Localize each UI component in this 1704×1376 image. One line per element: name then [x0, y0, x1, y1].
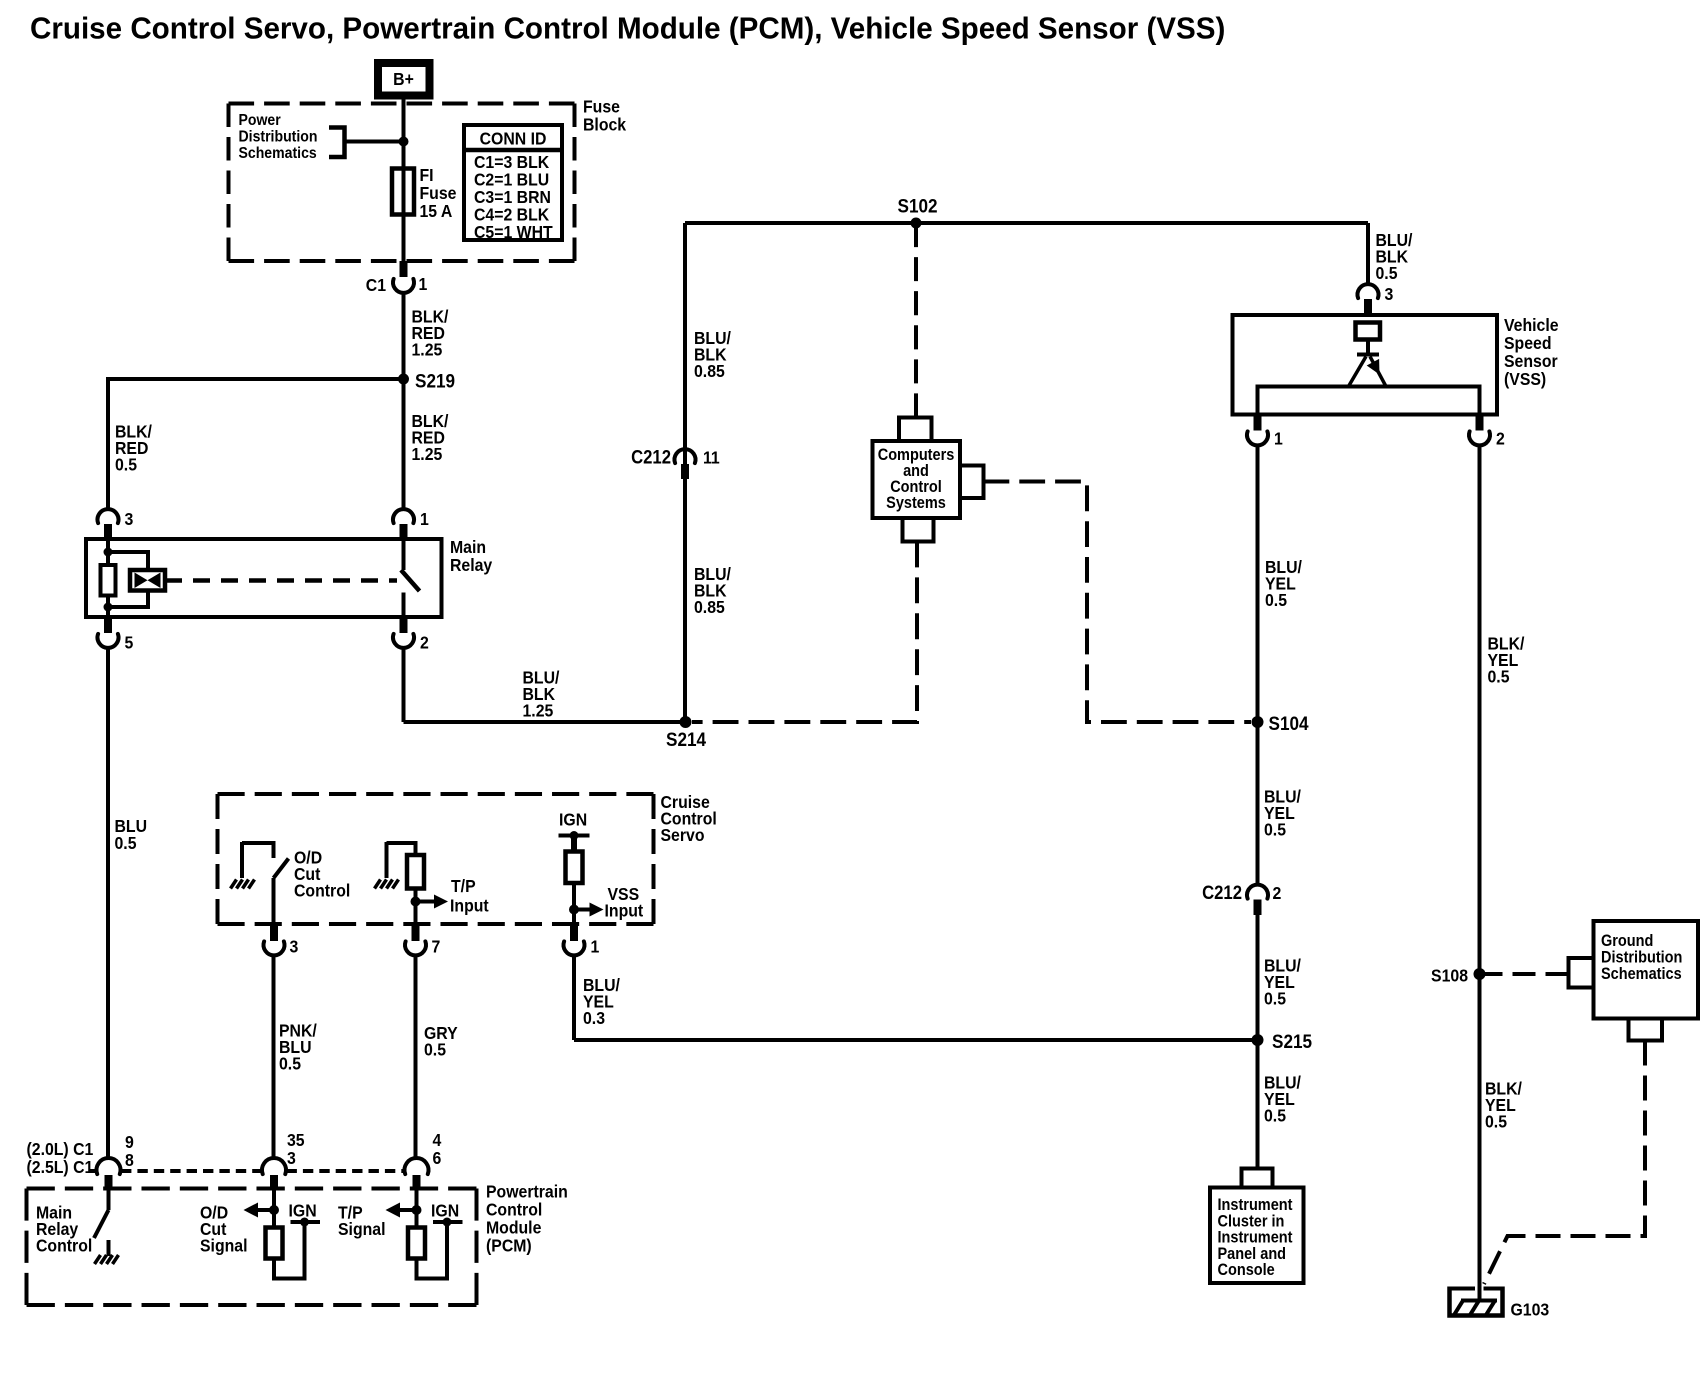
svg-text:Power: Power: [239, 111, 281, 129]
svg-text:IGN: IGN: [431, 1201, 459, 1221]
dashed wire computers tab to S104: [984, 482, 1252, 723]
connector C212 pin 2: [1247, 885, 1268, 899]
svg-text:Signal: Signal: [200, 1236, 247, 1256]
instrument cluster box: [1210, 1188, 1304, 1284]
relay pin 1 connector: [393, 509, 414, 523]
relay coil top junction: [104, 548, 113, 557]
svg-text:3: 3: [290, 937, 299, 957]
T/P resistor: [407, 855, 424, 889]
wire S219 branch left: [106, 377, 404, 381]
computers module bottom bracket: [903, 518, 934, 542]
svg-text:0.5: 0.5: [1264, 989, 1286, 1009]
servo pin 3 stub: [270, 926, 278, 942]
CONN ID header divider: [464, 148, 562, 153]
svg-text:1: 1: [420, 509, 429, 529]
relay switch lower contact: [402, 593, 406, 618]
wire servo pin 1 down: [572, 956, 576, 1041]
relay coil top wire: [106, 539, 110, 566]
wire C1 to S219 to relay pin 1: [402, 293, 406, 509]
svg-text:3: 3: [287, 1148, 296, 1168]
fuse FI 15A: [392, 169, 414, 215]
svg-text:Servo: Servo: [661, 825, 705, 845]
junction at fuse feed: [399, 137, 409, 147]
computers module right tab: [960, 466, 984, 499]
svg-text:Distribution: Distribution: [1601, 949, 1682, 967]
svg-text:G103: G103: [1511, 1300, 1550, 1320]
relay pin 2 stub: [400, 617, 408, 633]
svg-text:Schematics: Schematics: [1601, 965, 1682, 983]
VSS internal rail: [1258, 387, 1480, 415]
PCM connector 35/3: [262, 1158, 286, 1174]
cruise control servo dashed box: [218, 792, 654, 796]
svg-text:IGN: IGN: [289, 1201, 317, 1221]
O/D wire to pin 3: [272, 878, 276, 926]
wire S214 up to top rail: [683, 223, 687, 479]
svg-text:1.25: 1.25: [523, 701, 554, 721]
relay pin 3 connector: [98, 509, 119, 523]
svg-text:1.25: 1.25: [412, 444, 443, 464]
wire resistor to pin 1: [572, 883, 576, 926]
servo pin 1 connector: [564, 941, 585, 955]
svg-text:7: 7: [432, 937, 441, 957]
IGN junction PCM right: [443, 1218, 452, 1227]
ground distribution bottom bracket: [1629, 1019, 1663, 1041]
svg-text:0.85: 0.85: [694, 597, 725, 617]
svg-text:0.5: 0.5: [115, 455, 137, 475]
IGN wire to resistor: [571, 836, 577, 853]
connector C1 pin 1 stub: [400, 261, 408, 277]
svg-text:2: 2: [1273, 883, 1282, 903]
svg-text:1.25: 1.25: [412, 340, 443, 360]
O/D cut signal wire: [272, 1189, 276, 1228]
svg-text:Relay: Relay: [450, 555, 493, 575]
svg-text:2: 2: [420, 633, 429, 653]
VSS input arrow: [574, 908, 590, 912]
svg-text:15 A: 15 A: [420, 201, 453, 221]
dashed wire ground distribution to G103: [1484, 1041, 1645, 1285]
VSS pin 2 connector: [1469, 431, 1490, 445]
IGN junction PCM left: [300, 1218, 309, 1227]
wire branch down to relay pin 3: [106, 379, 110, 509]
svg-text:S219: S219: [415, 369, 455, 391]
servo pin 3 connector: [264, 941, 285, 955]
dashed wire S102 to computers module: [914, 223, 918, 418]
wire VSS pin1 down to C212: [1256, 446, 1260, 885]
VSS pin 2 stub: [1476, 415, 1484, 431]
dashed wire computers bottom to S214 rail: [692, 542, 917, 723]
wire relay pin 5 down to PCM connector: [106, 648, 110, 1158]
servo pin 7 stub: [412, 926, 420, 942]
relay switch upper wire: [402, 539, 406, 570]
fuse block dashed box: [229, 102, 575, 106]
connector C1 pin 1: [393, 279, 414, 293]
svg-text:CONN ID: CONN ID: [480, 129, 547, 149]
VSS element box: [1356, 323, 1381, 340]
VSS pin 3 connector: [1358, 284, 1379, 298]
relay actuation dashed link: [165, 578, 397, 583]
T/P junction: [411, 897, 421, 907]
svg-text:Distribution: Distribution: [239, 128, 318, 146]
relay pin 5 connector: [98, 634, 119, 648]
svg-text:0.3: 0.3: [583, 1008, 605, 1028]
servo pin 7 connector: [405, 941, 426, 955]
VSS sensor right leg: [1370, 357, 1386, 386]
wire servo pin 3 to PCM 35/3: [272, 956, 276, 1159]
top rail wire: [685, 221, 1368, 225]
PCM dashed box: [27, 1187, 477, 1191]
svg-text:C1: C1: [366, 275, 386, 295]
svg-text:S104: S104: [1269, 712, 1310, 734]
svg-text:(PCM): (PCM): [486, 1236, 532, 1256]
wire top rail down to VSS pin 3: [1366, 223, 1370, 285]
T/P pullup loop: [417, 1222, 448, 1279]
svg-text:6: 6: [433, 1148, 442, 1168]
PCM connector 35/3 stub: [270, 1175, 278, 1189]
svg-text:0.5: 0.5: [1488, 667, 1510, 687]
PCM connector 4/6 stub: [413, 1175, 421, 1189]
svg-text:0.5: 0.5: [1376, 263, 1398, 283]
wire servo pin 7 to PCM 4/6: [414, 956, 418, 1159]
PCM connector 4/6: [405, 1158, 429, 1174]
O/D pullup resistor: [266, 1228, 283, 1259]
computers module top bracket: [899, 418, 932, 442]
svg-text:0.5: 0.5: [424, 1040, 446, 1060]
PCM connector 9/8 stub: [105, 1175, 113, 1189]
svg-text:S102: S102: [898, 194, 938, 216]
ground distribution schematics box: [1594, 921, 1699, 1019]
svg-text:0.5: 0.5: [115, 833, 137, 853]
relay pin 3 stub: [104, 524, 112, 539]
VSS sensor arrowhead: [1367, 359, 1380, 375]
svg-text:5: 5: [125, 633, 134, 653]
svg-text:Systems: Systems: [886, 494, 946, 512]
connector C212 pin 11: [675, 449, 696, 463]
svg-text:0.5: 0.5: [1264, 820, 1286, 840]
computers and control systems box: [873, 441, 961, 518]
T/P wire to resistor: [387, 843, 416, 855]
IGN bar PCM left: [291, 1220, 321, 1224]
svg-text:0.5: 0.5: [1485, 1112, 1507, 1132]
wire relay pin 2 to S214: [404, 720, 686, 724]
svg-text:0.5: 0.5: [1265, 590, 1287, 610]
T/P ground symbol: [385, 842, 389, 878]
wire C212-11 down to S214: [683, 479, 687, 722]
svg-text:C5=1 WHT: C5=1 WHT: [474, 222, 553, 242]
VSS input junction: [569, 905, 579, 915]
T/P signal wire: [415, 1189, 419, 1228]
relay coil core box: [130, 570, 165, 591]
svg-text:1: 1: [1274, 429, 1283, 449]
relay coil bottom wire: [106, 595, 110, 617]
node S102: [911, 218, 922, 229]
svg-text:C212: C212: [1202, 882, 1242, 903]
svg-text:0.5: 0.5: [279, 1054, 301, 1074]
svg-text:8: 8: [125, 1150, 134, 1170]
VSS element bar: [1357, 353, 1379, 357]
relay pin 1 stub: [400, 524, 408, 539]
relay coil core bowtie right: [148, 573, 161, 589]
T/P signal arrow: [400, 1208, 417, 1212]
svg-text:Ground: Ground: [1601, 932, 1653, 950]
O/D fixed contact wire: [242, 843, 274, 858]
VSS element wire: [1366, 340, 1370, 353]
IGN junction servo: [570, 831, 579, 840]
battery B+ terminal: [378, 63, 430, 96]
svg-text:Input: Input: [605, 901, 644, 921]
T/P input arrow: [416, 900, 435, 904]
node S215: [1252, 1034, 1264, 1046]
wire B+ down through fuse block: [402, 99, 406, 262]
relay switch blade: [401, 570, 420, 591]
IGN bar servo: [559, 834, 590, 838]
VSS sensor left leg: [1349, 357, 1366, 386]
VSS input resistor: [566, 852, 583, 884]
servo pin 1 stub: [570, 926, 578, 942]
svg-text:2: 2: [1496, 429, 1505, 449]
ground distribution left tab: [1569, 958, 1594, 988]
dashed wire S108 to ground distribution: [1480, 972, 1569, 976]
VSS pin 1 stub: [1254, 415, 1262, 431]
svg-text:11: 11: [703, 448, 720, 468]
vehicle speed sensor box: [1233, 315, 1498, 415]
O/D cut signal junction: [269, 1205, 279, 1215]
O/D ground symbol: [240, 842, 244, 878]
connector C212 pin 11 stub: [681, 464, 689, 479]
svg-text:Block: Block: [583, 115, 627, 135]
main relay control switch blade: [94, 1210, 109, 1238]
svg-text:Control: Control: [36, 1236, 92, 1256]
main relay box: [86, 539, 442, 617]
node S214: [680, 716, 692, 728]
node S104: [1252, 716, 1264, 728]
svg-text:0.5: 0.5: [1264, 1106, 1286, 1126]
VSS pin 1 connector: [1247, 431, 1268, 445]
T/P signal junction: [412, 1205, 422, 1215]
wire bracket to B+ feed: [345, 140, 404, 144]
wire VSS pin2 down to G103: [1478, 446, 1482, 1301]
svg-text:IGN: IGN: [559, 810, 587, 830]
main relay control ground: [107, 1240, 111, 1256]
svg-text:3: 3: [125, 509, 134, 529]
CONN ID table box: [464, 125, 562, 240]
VSS pin 3 stub: [1364, 299, 1372, 315]
svg-text:S214: S214: [666, 728, 707, 750]
svg-text:Input: Input: [450, 896, 489, 916]
main relay control wire: [107, 1189, 111, 1210]
C1 connector dashed line: [90, 1169, 96, 1173]
svg-text:B+: B+: [393, 69, 414, 89]
svg-text:C212: C212: [631, 447, 671, 468]
wire C212-2 down to instrument cluster: [1256, 915, 1260, 1169]
svg-text:Control: Control: [294, 881, 350, 901]
svg-text:(VSS): (VSS): [1504, 369, 1546, 389]
svg-text:S215: S215: [1272, 1030, 1312, 1052]
relay coil loop: [108, 552, 148, 607]
wire relay pin 2 down: [402, 648, 406, 722]
T/P pullup resistor: [408, 1228, 425, 1259]
svg-text:Console: Console: [1218, 1261, 1276, 1279]
svg-text:1: 1: [419, 274, 428, 294]
node S108: [1474, 968, 1486, 980]
svg-text:Signal: Signal: [338, 1219, 385, 1239]
O/D pullup loop: [274, 1222, 305, 1279]
relay coil resistor: [101, 565, 116, 596]
svg-text:Schematics: Schematics: [239, 144, 317, 162]
PCM connector 9/8: [96, 1158, 120, 1174]
O/D switch blade: [274, 859, 289, 879]
relay pin 2 connector: [393, 634, 414, 648]
O/D cut signal arrow: [258, 1208, 274, 1212]
svg-text:T/P: T/P: [451, 876, 476, 896]
svg-text:0.85: 0.85: [694, 361, 725, 381]
connector C212 pin 2 stub: [1254, 900, 1262, 916]
svg-text:3: 3: [1385, 284, 1394, 304]
svg-text:1: 1: [591, 937, 600, 957]
relay coil bottom junction: [104, 603, 113, 612]
IGN bar PCM right: [433, 1220, 463, 1224]
relay coil core bowtie left: [135, 573, 148, 589]
wire servo pin 1 to S215: [574, 1038, 1258, 1042]
relay pin 5 stub: [104, 617, 112, 633]
svg-text:(2.5L) C1: (2.5L) C1: [27, 1157, 94, 1177]
svg-text:S108: S108: [1431, 966, 1468, 986]
node S219: [398, 374, 409, 385]
bracket to power distribution schematics: [329, 128, 345, 158]
svg-text:Cruise Control Servo, Powertra: Cruise Control Servo, Powertrain Control…: [30, 12, 1225, 46]
ground G103 symbol: [1450, 1287, 1503, 1316]
instrument cluster top bracket: [1242, 1169, 1273, 1188]
T/P wire to pin 7: [414, 889, 418, 926]
